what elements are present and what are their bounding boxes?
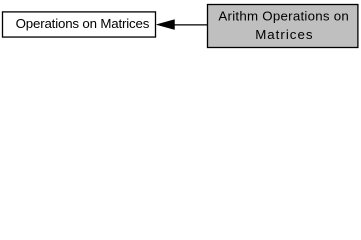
node N1 box: Operations on Matrices (white fill, black border) <box>3 12 156 37</box>
node N2 box: Arithm Operations on Matrices (grey fill, current group) <box>208 5 358 48</box>
svg-text:Operations on Matrices: Operations on Matrices <box>16 16 150 31</box>
svg-text:Arithm Operations on: Arithm Operations on <box>218 9 348 24</box>
edge wire: N2 -> N1 <box>174 24 208 26</box>
arrowhead at N1 <box>157 20 175 30</box>
svg-text:Matrices: Matrices <box>255 27 313 42</box>
